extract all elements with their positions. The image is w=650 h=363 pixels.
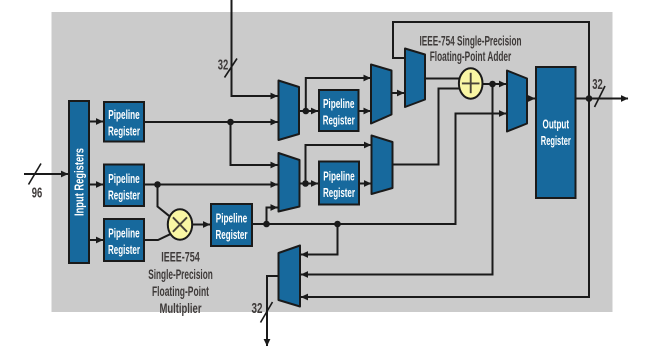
- input registers block: [69, 101, 89, 263]
- pipeline register 3 (bottom left): [104, 219, 144, 261]
- junction on reg2 output: [154, 181, 161, 188]
- pipeline register 1 (top left): [104, 102, 144, 142]
- wire: mux M2b output to row2 pipeline register: [300, 183, 319, 185]
- svg-text:Pipeline: Pipeline: [108, 226, 140, 241]
- svg-text:32: 32: [252, 301, 263, 317]
- svg-text:IEEE-754 Single-Precision: IEEE-754 Single-Precision: [420, 33, 522, 49]
- svg-text:Register: Register: [216, 227, 248, 242]
- wire: pipeline reg 4 output across to mux M4 lower input: [252, 114, 506, 225]
- wire: branch down to mux M5 top input: [301, 224, 338, 255]
- mux M1 (row 1 input select): [279, 81, 300, 141]
- wire: branch down into multiplier upper input: [158, 185, 170, 217]
- svg-text:Output: Output: [543, 117, 570, 132]
- svg-text:Pipeline: Pipeline: [216, 211, 248, 226]
- mux M5 (writeback select, points left): [279, 246, 301, 307]
- pipeline register 2 (middle left): [104, 165, 144, 207]
- mux M3 (adder operand select): [405, 49, 425, 108]
- pipeline register row1: [319, 90, 359, 131]
- wire: adder output to mux M4 top input: [482, 83, 506, 85]
- wire: branch down to mux M2b top input: [231, 122, 278, 165]
- wire: multiplier output to pipeline reg 4: [192, 224, 210, 226]
- svg-text:Register: Register: [323, 113, 355, 128]
- bus-width slash 96: [29, 164, 42, 185]
- svg-text:Input Registers: Input Registers: [72, 148, 87, 216]
- junction on mux M2b output: [302, 180, 309, 187]
- junction on mux M1 output: [303, 108, 310, 115]
- svg-text:Single-Precision: Single-Precision: [148, 266, 213, 282]
- svg-text:32: 32: [592, 77, 603, 93]
- bus-width slash 32 bottom: [261, 302, 273, 323]
- svg-text:Register: Register: [108, 187, 140, 202]
- wire: row2 register output to mux M3b bottom input: [359, 183, 371, 185]
- wire: input regs to pipeline reg 2: [89, 184, 103, 186]
- svg-text:Register: Register: [108, 242, 140, 257]
- svg-text:Pipeline: Pipeline: [108, 171, 140, 186]
- svg-text:IEEE-754: IEEE-754: [161, 249, 200, 265]
- wire: pipeline reg 3 output into multiplier lower input: [144, 234, 171, 240]
- svg-text:Pipeline: Pipeline: [108, 107, 140, 122]
- wire: adder result feedback down to mux M5 middle input: [301, 84, 493, 275]
- wire: mux M1 output to row1 pipeline register: [299, 110, 318, 112]
- wire: feedback from output up and around to mux M3 top input: [393, 22, 589, 58]
- svg-text:Pipeline: Pipeline: [323, 169, 355, 184]
- multiplier circle: [168, 209, 192, 239]
- adder circle: [459, 68, 483, 98]
- mux M3b: [372, 136, 393, 195]
- diagram background panel: [52, 12, 613, 312]
- svg-text:Register: Register: [108, 124, 140, 139]
- wire: branch up to mux M2b bottom input: [267, 208, 278, 225]
- pipeline register row2: [319, 162, 359, 205]
- wire: 32-bit input bus from top: [232, 0, 278, 96]
- svg-text:Floating-Point Adder: Floating-Point Adder: [430, 48, 512, 64]
- wire: feedback from output down to mux M5 bottom input: [301, 21, 589, 297]
- pipeline register 4 (after multiplier): [211, 204, 252, 246]
- junction on adder output: [489, 81, 496, 88]
- wire: mux M5 output down out of diagram: [267, 276, 279, 346]
- junction A on reg4 output: [263, 221, 270, 228]
- wire: bypass over row1 register to mux M2 top input: [306, 78, 371, 111]
- wire: pipeline reg 1 output to mux M1: [144, 121, 278, 123]
- wire: input regs to pipeline reg 1: [89, 121, 103, 123]
- svg-text:32: 32: [218, 58, 229, 74]
- wire: mux M3 output into adder: [425, 78, 461, 80]
- junction on output bus: [586, 95, 593, 102]
- bus-width slash 32 output: [595, 86, 606, 107]
- output register: [536, 67, 576, 198]
- junction B on reg4 output: [334, 221, 341, 228]
- bus-width slash 32 top: [225, 59, 238, 78]
- wire: mux M4 output to output register: [527, 98, 535, 100]
- svg-text:Multiplier: Multiplier: [160, 300, 202, 316]
- svg-text:Floating-Point: Floating-Point: [152, 283, 209, 299]
- wire: mux M2 output to mux M3 bottom input: [392, 92, 405, 94]
- svg-text:96: 96: [32, 185, 43, 201]
- mux M4 (output select): [507, 71, 527, 132]
- wire: 32-bit output bus: [576, 98, 629, 100]
- wire: 96-bit input bus: [24, 173, 68, 175]
- svg-text:Register: Register: [323, 185, 355, 200]
- wire: bypass over row2 register to mux M3b top input: [306, 145, 372, 184]
- wire: mux M3b output up into adder second input: [393, 89, 461, 165]
- svg-text:Pipeline: Pipeline: [323, 96, 355, 111]
- wire: row1 register output to mux M2 bottom input: [359, 110, 371, 112]
- wire: input regs to pipeline reg 3: [89, 239, 103, 241]
- mux M2b (row 2 input select): [279, 153, 300, 212]
- junction on reg1 output: [227, 119, 234, 126]
- mux M2: [371, 65, 392, 124]
- wire: pipeline reg 2 output to mux M2b middle input: [144, 184, 278, 186]
- svg-text:Register: Register: [541, 133, 571, 148]
